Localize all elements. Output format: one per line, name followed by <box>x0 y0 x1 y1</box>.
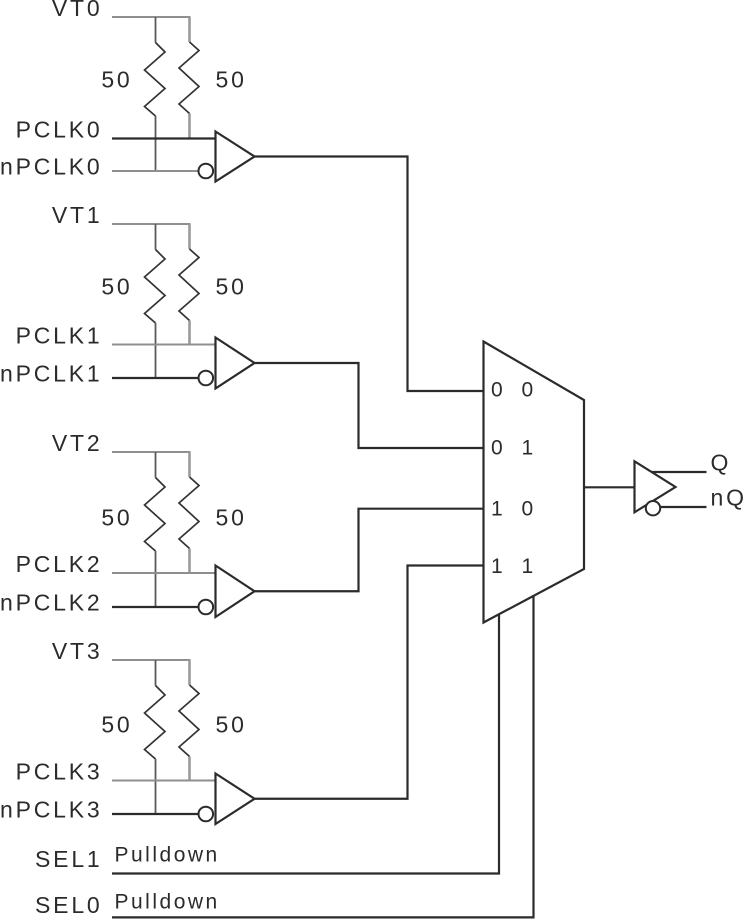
wire nPCLK0 <box>112 170 199 172</box>
wire mux output <box>584 486 635 488</box>
svg-text:SEL1: SEL1 <box>35 846 102 872</box>
svg-text:50: 50 <box>101 274 132 300</box>
buffer U6 output driver triangle <box>635 461 676 512</box>
wire Q output <box>652 471 707 473</box>
buffer U3 triangle <box>216 566 255 618</box>
wire R5 bottom lead to nPCLK2 <box>155 551 157 607</box>
wire PCLK1 <box>112 344 216 346</box>
wire VT1 horizontal <box>112 223 191 225</box>
svg-text:VT2: VT2 <box>52 430 103 456</box>
resistor R1 50 (left, VT0) <box>145 43 166 117</box>
wire R2 top lead <box>188 17 191 42</box>
wire U1 output to mux input 00 <box>255 157 484 392</box>
svg-text:50: 50 <box>216 274 247 300</box>
wire R8 top lead <box>188 660 191 685</box>
svg-text:50: 50 <box>101 67 132 93</box>
wire PCLK3 <box>112 780 216 782</box>
buffer U3 input bubble <box>199 600 214 615</box>
wire R7 top lead <box>155 660 157 686</box>
wire PCLK2 <box>112 572 216 574</box>
wire R4 top lead <box>188 224 191 249</box>
buffer U2 input bubble <box>199 371 214 386</box>
buffer U1 triangle <box>216 132 255 182</box>
wire VT2 horizontal <box>112 451 191 453</box>
buffer U2 triangle <box>216 338 255 389</box>
svg-text:50: 50 <box>216 712 247 738</box>
resistor R8 50 (right, VT3) <box>179 685 199 757</box>
svg-text:PCLK2: PCLK2 <box>16 551 103 577</box>
svg-text:nPCLK1: nPCLK1 <box>0 361 102 387</box>
resistor R5 50 (left, VT2) <box>145 478 166 552</box>
svg-text:VT0: VT0 <box>52 0 103 21</box>
wire SEL0 to mux <box>112 596 534 917</box>
svg-text:50: 50 <box>216 505 247 531</box>
svg-text:Q: Q <box>711 450 732 476</box>
svg-text:nPCLK2: nPCLK2 <box>0 590 102 616</box>
svg-text:PCLK1: PCLK1 <box>16 323 103 349</box>
wire R3 bottom lead to nPCLK1 <box>155 323 157 378</box>
resistor R7 50 (left, VT3) <box>145 686 166 760</box>
wire VT3 horizontal <box>112 659 191 661</box>
wire R6 bottom lead to PCLK2 <box>188 549 191 574</box>
wire nPCLK3 <box>112 813 199 815</box>
svg-text:nQ: nQ <box>711 485 746 511</box>
resistor R3 50 (left, VT1) <box>145 250 166 324</box>
wire R8 bottom lead to PCLK3 <box>188 757 191 781</box>
wire nPCLK1 <box>112 377 199 379</box>
wire nQ output <box>660 506 706 508</box>
wire U2 output to mux input 01 <box>255 363 484 448</box>
svg-text:VT3: VT3 <box>52 638 103 664</box>
resistor R2 50 (right, VT0) <box>179 42 199 114</box>
wire R4 bottom lead to PCLK1 <box>188 321 191 345</box>
svg-text:50: 50 <box>216 67 247 93</box>
wire U3 output to mux input 10 <box>255 509 484 592</box>
wire R2 bottom lead to PCLK0 <box>188 114 191 139</box>
svg-text:SEL0: SEL0 <box>35 892 102 918</box>
wire SEL1 to mux <box>112 615 499 874</box>
svg-text:VT1: VT1 <box>52 202 103 228</box>
wire U4 output to mux input 11 <box>255 566 484 799</box>
wire VT0 horizontal <box>112 16 191 18</box>
svg-text:50: 50 <box>101 712 132 738</box>
wire nPCLK2 <box>112 606 199 608</box>
resistor R6 50 (right, VT2) <box>179 477 199 549</box>
svg-text:50: 50 <box>101 505 132 531</box>
svg-text:PCLK0: PCLK0 <box>16 117 103 143</box>
mux U5 body <box>484 342 585 623</box>
buffer U4 input bubble <box>199 807 214 822</box>
wire R5 top lead <box>155 452 157 478</box>
svg-text:PCLK3: PCLK3 <box>16 759 103 785</box>
wire R3 top lead <box>155 224 157 250</box>
wire R1 bottom lead to nPCLK0 <box>155 116 157 171</box>
wire R1 top lead <box>155 17 157 43</box>
svg-text:Pulldown: Pulldown <box>115 844 220 867</box>
wire R6 top lead <box>188 452 191 477</box>
svg-text:nPCLK3: nPCLK3 <box>0 797 102 823</box>
buffer U4 triangle <box>216 774 255 825</box>
svg-text:nPCLK0: nPCLK0 <box>0 154 102 180</box>
buffer U1 input bubble <box>199 164 214 179</box>
svg-text:Pulldown: Pulldown <box>115 891 220 914</box>
buffer U6 inverting output bubble <box>646 501 660 515</box>
wire R7 bottom lead to nPCLK3 <box>155 759 157 814</box>
resistor R4 50 (right, VT1) <box>179 249 199 321</box>
wire PCLK0 <box>112 137 216 139</box>
